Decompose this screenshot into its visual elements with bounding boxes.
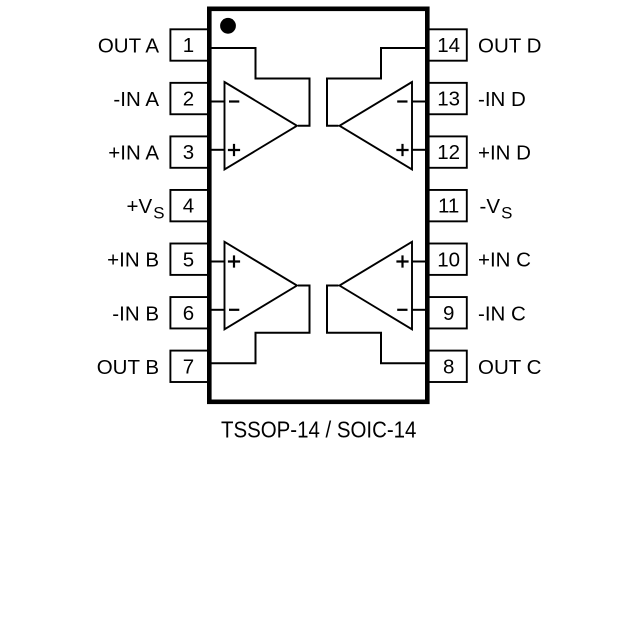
op-amp B inverting input minus sign: [229, 309, 239, 311]
op-amp D (triangle): [340, 82, 413, 170]
pin 6 box: [170, 297, 209, 328]
op-amp C inverting input minus sign: [397, 309, 407, 311]
wire pin 5 to op-amp B non-inverting input: [209, 261, 225, 263]
wire pin 10 to op-amp C non-inverting input: [412, 261, 428, 263]
pin 14 box: [427, 29, 467, 60]
op-amp B (triangle): [225, 242, 298, 329]
svg-text:12: 12: [437, 141, 460, 164]
op-amp A non-inverting input plus sign: [228, 144, 240, 156]
wire pin 13 to op-amp D inverting input: [412, 101, 428, 103]
op-amp D inverting input minus sign: [397, 100, 407, 102]
svg-text:9: 9: [443, 302, 454, 325]
pin 13 box: [427, 83, 467, 114]
svg-text:TSSOP-14 / SOIC-14: TSSOP-14 / SOIC-14: [221, 416, 416, 443]
pin 3 box: [170, 136, 209, 167]
wire pin 9 to op-amp C inverting input: [412, 309, 428, 311]
wire pin 6 to op-amp B inverting input: [209, 309, 225, 311]
wire pin 2 to op-amp A inverting input: [209, 101, 225, 103]
pin 8 box: [427, 351, 467, 382]
wire pin 14 to op-amp D output: [327, 48, 428, 126]
svg-text:1: 1: [183, 34, 194, 57]
svg-text:13: 13: [437, 88, 460, 111]
op-amp C (triangle): [340, 242, 413, 329]
pin 12 box: [427, 136, 467, 167]
pin 1 marker dot: [220, 18, 236, 34]
op-amp B non-inverting input plus sign: [228, 255, 240, 267]
svg-text:10: 10: [437, 248, 460, 271]
svg-text:11: 11: [438, 195, 459, 218]
svg-text:-IN A: -IN A: [113, 88, 159, 111]
svg-text:8: 8: [443, 355, 454, 378]
pin 2 box: [170, 83, 209, 114]
pin 5 box: [170, 244, 209, 275]
pin 4 box: [170, 190, 209, 221]
wire pin 7 to op-amp B output: [209, 286, 310, 364]
svg-text:5: 5: [183, 248, 194, 271]
pin 7 box: [170, 351, 209, 382]
op-amp A (triangle): [225, 82, 298, 170]
svg-text:-IN B: -IN B: [112, 302, 159, 325]
svg-text:OUT D: OUT D: [478, 35, 541, 58]
pin 10 box: [427, 244, 467, 275]
pin 9 box: [427, 297, 467, 328]
svg-text:2: 2: [183, 88, 194, 111]
svg-text:OUT A: OUT A: [98, 35, 159, 58]
svg-text:+IN A: +IN A: [108, 142, 159, 165]
wire pin 3 to op-amp A non-inverting input: [209, 149, 225, 151]
svg-text:3: 3: [183, 141, 194, 164]
svg-text:OUT B: OUT B: [97, 356, 159, 379]
wire pin 12 to op-amp D non-inverting input: [412, 149, 428, 151]
pin 1 box: [170, 29, 209, 60]
svg-text:+IN C: +IN C: [478, 249, 531, 272]
svg-text:-IN D: -IN D: [478, 88, 526, 111]
svg-text:+IN D: +IN D: [478, 142, 531, 165]
svg-text:OUT C: OUT C: [478, 356, 542, 379]
wire pin 8 to op-amp C output: [327, 286, 428, 364]
svg-text:4: 4: [183, 195, 194, 218]
wire pin 1 to op-amp A output: [209, 48, 310, 126]
pin 11 box: [427, 190, 467, 221]
IC body U1 (TSSOP-14/SOIC-14 outline): [209, 9, 427, 402]
svg-text:+IN B: +IN B: [107, 249, 159, 272]
op-amp A inverting input minus sign: [229, 100, 239, 102]
op-amp D non-inverting input plus sign: [396, 144, 408, 156]
svg-text:-IN C: -IN C: [478, 302, 526, 325]
op-amp C non-inverting input plus sign: [396, 255, 408, 267]
svg-text:7: 7: [183, 355, 194, 378]
svg-text:14: 14: [437, 34, 460, 57]
svg-text:6: 6: [183, 302, 194, 325]
